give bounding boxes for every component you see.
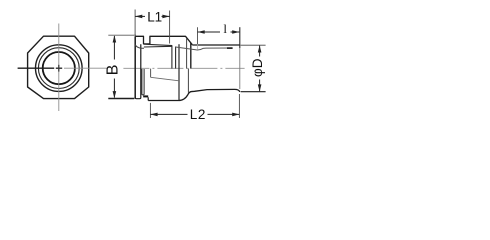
dimension L1 line and arrows <box>135 15 145 17</box>
dimension L1 right extension line <box>169 11 171 44</box>
side view: flange bottom U <box>135 44 141 98</box>
dimension phiD bottom extension line <box>241 91 266 93</box>
dimension l line and arrows <box>198 31 221 33</box>
side view: corner vertical to body bottom <box>147 97 149 100</box>
dimension L2 left extension line <box>149 103 151 118</box>
side view: inner slant and tube inner line <box>176 47 233 50</box>
side view: tube inner line dark tail <box>227 47 233 49</box>
dimension L2 right extension line <box>238 94 240 118</box>
horizontal centerline center short dash <box>56 67 62 69</box>
center mark vertical tick <box>58 65 60 72</box>
side view: body/taper boundary vertical <box>178 44 180 100</box>
dimension B top extension line <box>108 34 136 36</box>
inner circle <box>43 52 75 84</box>
side view: tube top edge <box>192 44 240 46</box>
side view: taper inner vertical below centerline <box>187 69 189 93</box>
horizontal centerline right gray segment <box>64 67 107 69</box>
side view: body bottom edge and taper curve <box>148 89 240 100</box>
svg-text:L1: L1 <box>147 9 162 24</box>
svg-text:L2: L2 <box>190 107 206 122</box>
svg-text:B: B <box>105 65 122 76</box>
side view: left flange face <box>134 36 136 98</box>
side view: latch lever bottom line <box>144 45 172 48</box>
side view: latch lever top line <box>144 44 172 45</box>
side view: section dark bar <box>143 95 148 97</box>
svg-text:l: l <box>223 21 227 36</box>
middle circle <box>38 48 79 89</box>
horizontal centerline left dark dash <box>18 67 55 69</box>
dimension B line upper segment with up arrow <box>113 36 115 98</box>
front view octagon body <box>28 36 89 98</box>
side view centerline <box>123 67 244 69</box>
dimension phiD line segments and arrows <box>259 46 261 57</box>
vertical centerline <box>58 24 60 112</box>
dimension B bottom extension line <box>108 98 134 100</box>
side view: top-left step & body top edge <box>135 36 192 44</box>
side view: socket inner wall line below centerline <box>151 77 179 81</box>
dimension L1 left extension line <box>134 10 136 36</box>
outer circle <box>36 45 83 92</box>
side view: socket inner wall vertical <box>150 69 152 78</box>
side view: neck fillet from flange <box>135 45 144 49</box>
side view: socket section verticals below centerline <box>141 69 143 95</box>
dimension l left extension line <box>197 27 199 44</box>
side view: clip front edge pair <box>171 46 173 69</box>
dimension phiD top extension line <box>241 44 266 46</box>
dimension L2 line and arrows <box>150 113 187 115</box>
svg-text:φD: φD <box>250 58 265 77</box>
side view: taper inner verticals above centerline <box>186 38 188 68</box>
side view: right end face <box>239 27 241 48</box>
